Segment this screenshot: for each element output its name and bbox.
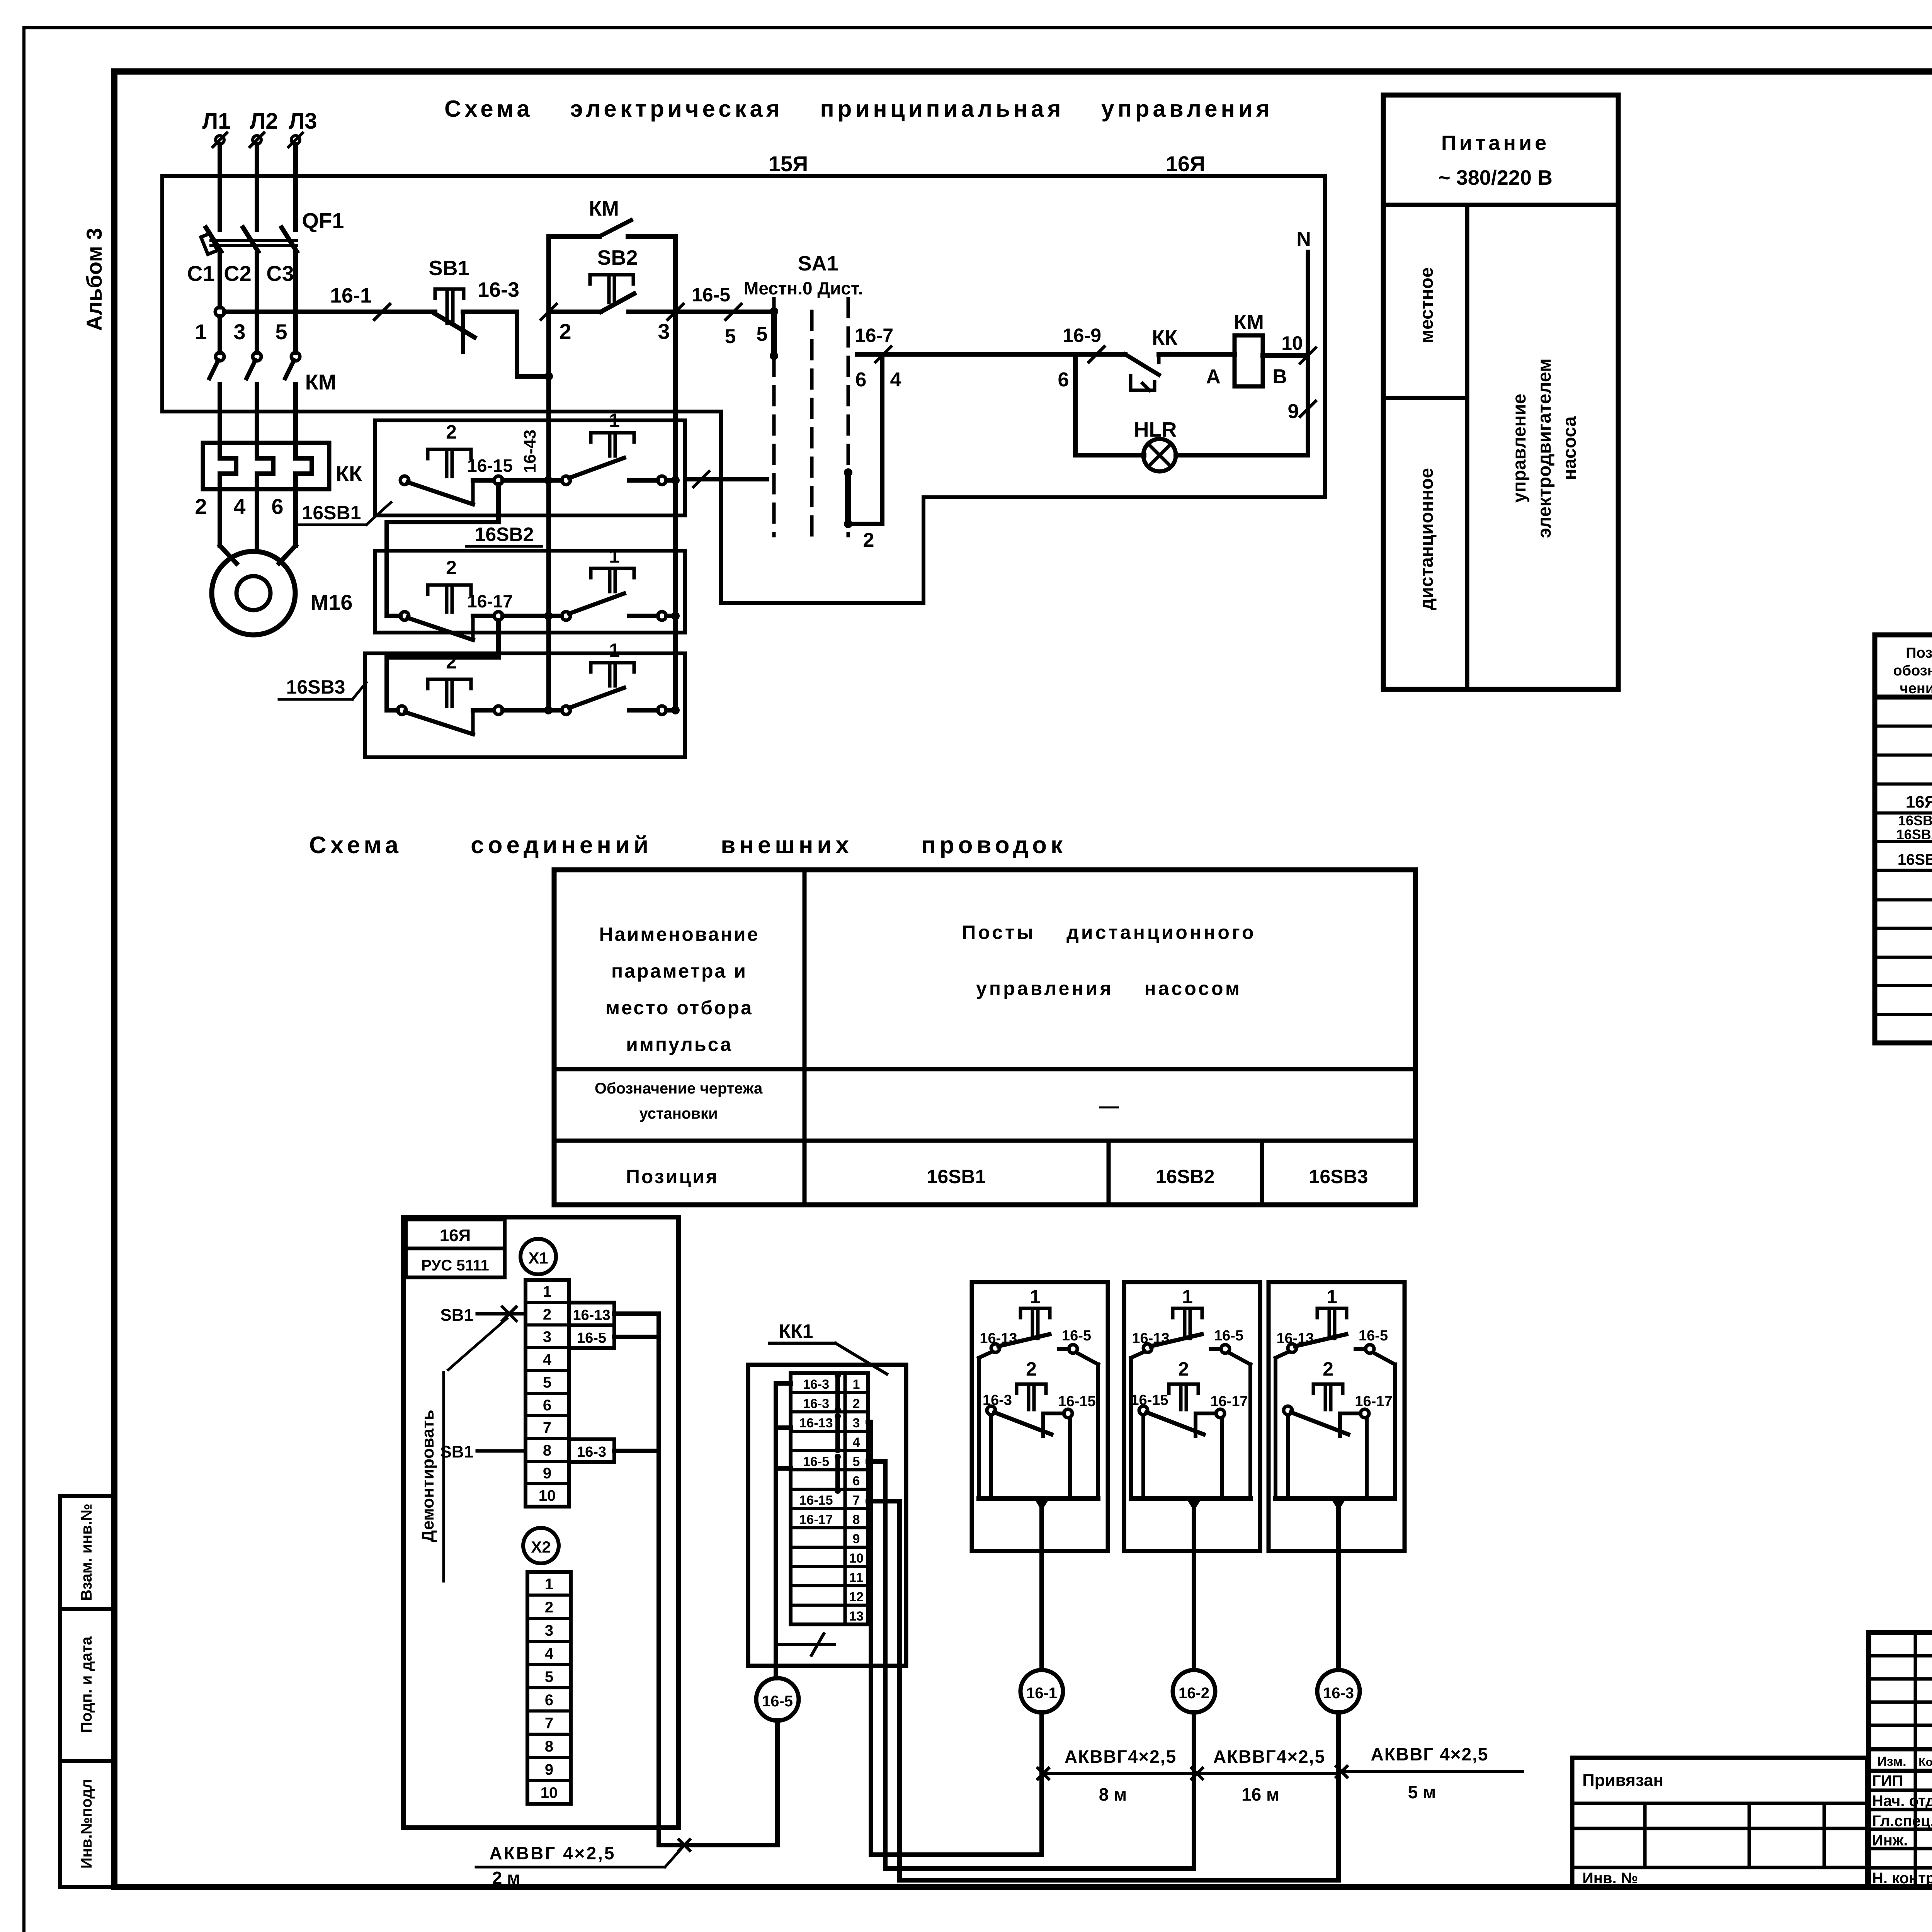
svg-text:16SB1: 16SB1: [927, 1166, 986, 1187]
svg-text:SB1: SB1: [440, 1306, 473, 1325]
svg-text:X2: X2: [531, 1538, 551, 1556]
svg-text:11: 11: [849, 1570, 863, 1585]
station bottom bar and cable tap: [1131, 1496, 1250, 1501]
svg-text:B: B: [1272, 366, 1287, 388]
KK1 terminal strip: [791, 1373, 868, 1624]
row box: [375, 420, 685, 515]
wire SA1 pos2 riser: [880, 354, 884, 524]
svg-text:5: 5: [725, 325, 736, 348]
svg-text:управления насосом: управления насосом: [976, 978, 1242, 999]
thermal overload relay KK: [203, 443, 329, 489]
svg-text:10: 10: [539, 1487, 556, 1504]
svg-text:16-3: 16-3: [803, 1377, 829, 1392]
svg-text:8: 8: [543, 1442, 551, 1459]
svg-text:16-5: 16-5: [803, 1454, 829, 1469]
station box: [1269, 1282, 1405, 1551]
svg-text:2: 2: [853, 1396, 860, 1411]
svg-text:3: 3: [658, 319, 670, 344]
svg-text:SB1: SB1: [429, 257, 469, 280]
svg-text:QF1: QF1: [302, 208, 344, 233]
svg-text:КК: КК: [1152, 326, 1178, 349]
svg-text:2: 2: [1323, 1358, 1333, 1380]
svg-text:16SB1,: 16SB1,: [1898, 813, 1932, 828]
svg-text:Наименование: Наименование: [599, 923, 760, 945]
wire phase Л2 top: [255, 145, 259, 230]
svg-text:16-15: 16-15: [1058, 1393, 1095, 1410]
KK1 strip bottom break mark: [777, 1643, 835, 1646]
svg-text:2: 2: [446, 557, 457, 578]
svg-text:16-15: 16-15: [1131, 1392, 1168, 1408]
svg-text:C3: C3: [266, 261, 294, 286]
svg-text:2: 2: [543, 1306, 551, 1323]
svg-text:Инв.№подл: Инв.№подл: [78, 1779, 95, 1869]
svg-text:чение: чение: [1900, 680, 1932, 697]
svg-text:13: 13: [849, 1609, 864, 1624]
svg-text:16-5: 16-5: [1359, 1328, 1388, 1344]
svg-text:1: 1: [543, 1283, 551, 1300]
slash 9: [1300, 401, 1316, 417]
svg-text:Л2: Л2: [250, 109, 278, 134]
wire 16-5 to SA1: [675, 310, 774, 314]
svg-text:местное: местное: [1417, 267, 1437, 344]
svg-text:4: 4: [545, 1645, 554, 1662]
svg-text:АКВВГ 4×2,5: АКВВГ 4×2,5: [1371, 1744, 1489, 1764]
station wires outer: [979, 1352, 992, 1358]
svg-text:параметра и: параметра и: [611, 960, 747, 982]
power feed box Питание 380/220: [1383, 95, 1618, 689]
svg-text:6: 6: [271, 494, 283, 519]
station wires outer: [1276, 1352, 1289, 1358]
svg-text:8 м: 8 м: [1099, 1784, 1127, 1804]
svg-text:насоса: насоса: [1560, 416, 1580, 480]
wire phase Л3 top: [293, 145, 298, 230]
parts table frame: [1875, 635, 1932, 1043]
svg-text:SA1: SA1: [798, 252, 838, 275]
svg-text:16-9: 16-9: [1063, 325, 1101, 346]
svg-text:5 м: 5 м: [1408, 1782, 1436, 1802]
svg-text:9: 9: [545, 1761, 553, 1778]
svg-text:10: 10: [1281, 332, 1303, 354]
terminal block X2: [523, 1528, 559, 1563]
svg-text:Подп. и дата: Подп. и дата: [78, 1636, 95, 1733]
svg-text:Обозначение чертежа: Обозначение чертежа: [595, 1080, 763, 1097]
svg-text:2: 2: [863, 529, 874, 551]
svg-text:КК1: КК1: [779, 1320, 813, 1342]
cable run to station1: [871, 1852, 1042, 1857]
wire S-link row1 to row2: [387, 485, 498, 616]
wire phase2 mid: [255, 252, 259, 353]
svg-text:16-17: 16-17: [467, 591, 513, 611]
svg-text:Изм.: Изм.: [1877, 1754, 1906, 1769]
station inner rails: [1141, 1415, 1145, 1498]
wire motor leads: [218, 489, 222, 546]
svg-text:C1: C1: [187, 261, 215, 286]
svg-text:15Я: 15Я: [769, 151, 808, 176]
svg-text:КМ: КМ: [589, 197, 619, 220]
svg-text:Инж.: Инж.: [1872, 1832, 1908, 1849]
svg-text:16-5: 16-5: [1062, 1328, 1091, 1344]
svg-text:Нач. отд.: Нач. отд.: [1872, 1793, 1932, 1810]
svg-text:16-15: 16-15: [799, 1493, 833, 1508]
cable circle 16-1: [1039, 1551, 1044, 1670]
svg-text:3: 3: [853, 1416, 860, 1430]
svg-text:16SB2: 16SB2: [1156, 1166, 1215, 1187]
row box: [375, 551, 685, 633]
svg-text:Схема электрическая принципи: Схема электрическая принципиальная управ…: [444, 96, 1273, 122]
svg-text:1: 1: [545, 1576, 553, 1593]
svg-text:1: 1: [1327, 1286, 1337, 1308]
external wiring table frame: [554, 870, 1415, 1205]
svg-text:16-13: 16-13: [1276, 1330, 1314, 1347]
svg-text:5: 5: [275, 320, 287, 344]
cell 16Я: [406, 1219, 505, 1248]
svg-text:16-3: 16-3: [803, 1396, 829, 1411]
svg-text:16SB3: 16SB3: [1309, 1166, 1368, 1187]
wire 16-13 to KK1: [614, 1311, 659, 1316]
KK1 jumper pins: [835, 1376, 840, 1410]
node tap to control circuit: [215, 307, 224, 316]
tag 16-3: [569, 1439, 614, 1462]
cable circle 16-5: [756, 1678, 799, 1721]
svg-text:16SB2: 16SB2: [475, 524, 534, 545]
wire coil to N: [1263, 353, 1308, 358]
SA1 contact bar position 2: [845, 473, 851, 524]
svg-text:~ 380/220 В: ~ 380/220 В: [1438, 166, 1553, 189]
tag 16-5: [569, 1325, 614, 1348]
station box: [1124, 1282, 1260, 1551]
svg-text:16-7: 16-7: [855, 325, 893, 346]
break mark phase Л2: [253, 136, 261, 144]
svg-text:2: 2: [1178, 1358, 1189, 1380]
svg-text:10: 10: [849, 1551, 864, 1566]
svg-text:1: 1: [853, 1377, 860, 1392]
svg-text:2: 2: [1026, 1358, 1037, 1380]
svg-text:2: 2: [446, 651, 457, 673]
svg-text:5: 5: [853, 1454, 860, 1469]
svg-text:1: 1: [1182, 1286, 1193, 1308]
svg-text:16-17: 16-17: [1210, 1393, 1248, 1410]
svg-text:Местн.0 Дист.: Местн.0 Дист.: [744, 278, 863, 298]
wire S-link row2 to row3: [387, 620, 498, 710]
svg-text:управление: управление: [1509, 394, 1530, 503]
svg-text:16 м: 16 м: [1242, 1784, 1279, 1804]
wire phase1 mid: [218, 252, 222, 307]
svg-text:16-13: 16-13: [799, 1416, 833, 1430]
svg-text:6: 6: [545, 1692, 553, 1709]
svg-text:8: 8: [545, 1738, 553, 1755]
svg-text:4: 4: [543, 1351, 552, 1368]
svg-text:6: 6: [543, 1397, 551, 1414]
cable АКВВГ 2м run: [656, 1828, 661, 1845]
svg-text:2 м: 2 м: [492, 1868, 520, 1888]
svg-text:16-1: 16-1: [330, 284, 372, 307]
svg-text:М16: М16: [311, 590, 353, 614]
station inner rails: [989, 1415, 993, 1498]
cable run to station3: [900, 1878, 1338, 1883]
svg-text:8: 8: [853, 1512, 860, 1527]
circuit breaker QF1: [206, 228, 221, 252]
svg-text:16-5: 16-5: [762, 1693, 793, 1710]
svg-text:АКВВГ4×2,5: АКВВГ4×2,5: [1213, 1747, 1325, 1767]
svg-text:16-13: 16-13: [1132, 1330, 1169, 1347]
svg-text:электродвигателем: электродвигателем: [1534, 358, 1555, 538]
station wires outer: [1131, 1352, 1145, 1358]
svg-text:Демонтировать: Демонтировать: [418, 1410, 437, 1542]
svg-text:3: 3: [543, 1328, 551, 1345]
cabinet enclosure 16Я boundary: [162, 176, 1325, 603]
svg-text:дистанционное: дистанционное: [1417, 468, 1437, 610]
wire 16-5 to KK1: [614, 1335, 659, 1339]
KK1 output wires: [868, 1420, 871, 1424]
svg-text:16Я: 16Я: [1166, 151, 1206, 176]
svg-text:импульса: импульса: [626, 1034, 733, 1055]
svg-text:16-13: 16-13: [573, 1307, 610, 1323]
svg-text:16-15: 16-15: [467, 456, 513, 476]
station bottom bar and cable tap: [1276, 1496, 1395, 1501]
svg-text:Кол.уч: Кол.уч: [1918, 1756, 1932, 1769]
break mark phase Л1: [216, 136, 224, 144]
wire ladder row1 to SA1: [685, 477, 767, 481]
svg-text:Схема соединений внешних пр: Схема соединений внешних проводок: [309, 832, 1066, 859]
svg-text:16-1: 16-1: [1026, 1685, 1057, 1702]
svg-text:16-3: 16-3: [1323, 1685, 1354, 1702]
bus left vertical: [546, 236, 551, 710]
svg-text:9: 9: [1288, 400, 1299, 423]
wire phase Л1 top: [218, 145, 222, 230]
svg-text:5: 5: [545, 1668, 553, 1685]
svg-text:16-3: 16-3: [577, 1444, 606, 1460]
svg-text:X1: X1: [528, 1249, 548, 1267]
svg-text:16-5: 16-5: [577, 1330, 606, 1346]
svg-text:1: 1: [195, 320, 207, 344]
wire 16-3 to KK1: [614, 1449, 659, 1453]
svg-text:6: 6: [853, 1474, 860, 1488]
svg-text:N: N: [1296, 228, 1311, 250]
svg-text:3: 3: [233, 320, 245, 344]
svg-text:Л1: Л1: [202, 109, 231, 134]
svg-text:1: 1: [609, 545, 620, 567]
svg-text:16-3: 16-3: [983, 1392, 1012, 1408]
svg-text:16-43: 16-43: [520, 430, 539, 473]
svg-text:РУС 5111: РУС 5111: [421, 1257, 489, 1274]
svg-text:ГИП: ГИП: [1872, 1772, 1903, 1789]
motor M16: [212, 551, 295, 635]
cable run to station2: [885, 1866, 1194, 1871]
stamp cell Подп. и дата: [60, 1609, 114, 1761]
break mark phase Л3: [291, 136, 300, 144]
stamp cell Взам. инв.№: [60, 1496, 114, 1609]
svg-text:5: 5: [757, 323, 768, 345]
svg-text:Взам. инв.№: Взам. инв.№: [78, 1503, 95, 1600]
svg-text:16SB2',: 16SB2',: [1896, 827, 1932, 842]
svg-text:16-17: 16-17: [1355, 1393, 1392, 1410]
contactor KM main contacts: [216, 352, 224, 361]
svg-text:Гл.спец.: Гл.спец.: [1872, 1813, 1932, 1830]
svg-text:Поз.: Поз.: [1906, 645, 1932, 661]
svg-text:9: 9: [853, 1532, 860, 1546]
svg-text:Н. контр.: Н. контр.: [1872, 1870, 1932, 1887]
station bottom bar and cable tap: [979, 1496, 1098, 1501]
wire SB1 to bus: [515, 312, 519, 376]
svg-text:12: 12: [849, 1590, 864, 1604]
svg-text:16Я: 16Я: [440, 1226, 471, 1245]
KK1 left common wire: [774, 1383, 778, 1678]
cell РУС 5111: [406, 1248, 505, 1277]
tag 16-13: [569, 1303, 614, 1325]
station inner rails: [1286, 1415, 1290, 1498]
svg-text:16SB3: 16SB3: [1898, 851, 1932, 868]
cable circle 16-2: [1192, 1551, 1196, 1670]
svg-text:7: 7: [543, 1419, 551, 1436]
wire 16-1 control line: [224, 310, 435, 314]
terminal block X1: [520, 1239, 556, 1274]
svg-text:Привязан: Привязан: [1582, 1771, 1663, 1790]
svg-text:КМ: КМ: [305, 370, 337, 394]
wire cable down inside 16Я: [656, 1314, 661, 1828]
title block signature grid: [1869, 1633, 1932, 1887]
svg-text:7: 7: [853, 1493, 860, 1508]
svg-text:A: A: [1206, 366, 1221, 388]
svg-text:9: 9: [543, 1465, 551, 1482]
stamp cell Инв.№подл: [60, 1761, 114, 1887]
svg-text:6: 6: [855, 369, 867, 391]
box Привязан: [1572, 1758, 1867, 1887]
svg-text:4: 4: [233, 494, 245, 519]
svg-text:16-5: 16-5: [1214, 1328, 1243, 1344]
cabinet box 16Я: [403, 1217, 679, 1828]
svg-text:4: 4: [853, 1435, 860, 1450]
svg-text:АКВВГ4×2,5: АКВВГ4×2,5: [1065, 1747, 1177, 1767]
svg-text:SB2: SB2: [597, 246, 638, 269]
svg-text:2: 2: [545, 1599, 553, 1616]
svg-text:7: 7: [545, 1715, 553, 1732]
junction SB1 branch: [544, 372, 553, 381]
svg-text:1: 1: [609, 639, 620, 661]
svg-text:установки: установки: [639, 1105, 718, 1122]
svg-text:16-2: 16-2: [1179, 1685, 1209, 1702]
svg-text:2: 2: [446, 421, 457, 443]
svg-text:SB1: SB1: [440, 1442, 473, 1461]
svg-text:КМ: КМ: [1234, 311, 1264, 334]
svg-text:КК: КК: [336, 461, 362, 486]
svg-text:Позиция: Позиция: [626, 1166, 719, 1187]
svg-text:16SB3: 16SB3: [286, 676, 345, 698]
svg-text:4: 4: [890, 369, 901, 391]
svg-text:место отбора: место отбора: [605, 997, 753, 1019]
svg-text:Инв. №: Инв. №: [1582, 1870, 1638, 1887]
svg-text:3: 3: [545, 1622, 553, 1639]
SA1 contact bar position 1: [771, 311, 777, 356]
svg-text:Посты дистанционного: Посты дистанционного: [962, 922, 1256, 943]
row box: [365, 653, 685, 757]
station box: [972, 1282, 1108, 1551]
svg-text:10: 10: [541, 1784, 558, 1801]
svg-text:16-3: 16-3: [478, 278, 519, 301]
svg-text:16-17: 16-17: [799, 1512, 833, 1527]
svg-text:Альбом 3: Альбом 3: [82, 228, 106, 331]
wire phase3 mid: [293, 252, 298, 353]
svg-text:16Я: 16Я: [1906, 793, 1932, 811]
svg-text:обозна-: обозна-: [1893, 663, 1932, 679]
svg-text:—: —: [1099, 1095, 1119, 1117]
svg-text:C2: C2: [224, 261, 252, 286]
svg-text:16-5: 16-5: [692, 284, 730, 306]
svg-text:2: 2: [559, 319, 571, 344]
svg-text:1: 1: [609, 410, 620, 431]
svg-text:Л3: Л3: [289, 109, 317, 134]
svg-text:2: 2: [195, 494, 207, 519]
cable circle 16-3: [1336, 1551, 1341, 1670]
svg-text:Питание: Питание: [1441, 131, 1549, 155]
svg-text:5: 5: [543, 1374, 551, 1391]
svg-text:1: 1: [1030, 1286, 1041, 1308]
svg-text:АКВВГ 4×2,5: АКВВГ 4×2,5: [490, 1843, 616, 1863]
svg-text:16-13: 16-13: [980, 1330, 1017, 1347]
svg-text:16SB1: 16SB1: [302, 502, 361, 524]
bus right vertical: [673, 236, 678, 710]
svg-text:6: 6: [1058, 369, 1069, 391]
